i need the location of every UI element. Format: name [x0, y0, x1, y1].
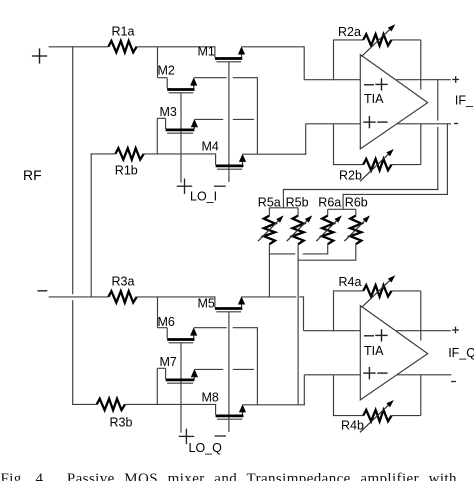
- wire R2b left vertical: [333, 124, 335, 165]
- transistor M8 source arrow: [242, 411, 244, 415]
- wire M2/M4 source join vertical: [256, 77, 258, 154]
- varistor R5a arrow: [258, 221, 278, 241]
- transistor M7 channel bar: [166, 379, 195, 382]
- varistor R4b arrow: [360, 405, 388, 432]
- wire LO_I- gate line (M1,M4 gates): [228, 62, 230, 182]
- wire M6 source rail (left of LO crossing): [194, 327, 227, 329]
- node LO_I+ terminal: [177, 185, 192, 187]
- wire M6 source rail (right of LO crossing): [233, 327, 258, 329]
- wire R2b bottom right: [392, 164, 421, 166]
- svg-text:R2b: R2b: [339, 168, 362, 182]
- svg-text:TIA: TIA: [364, 92, 384, 106]
- wire M8 source rail: [243, 404, 305, 406]
- wire IF_I+ tap down to R5 pair (below IF- crossing): [437, 127, 439, 190]
- resistor R6b: [350, 216, 361, 245]
- transistor M2 gate line: [169, 92, 194, 94]
- wire M7 source stub (dead-end segment): [233, 368, 254, 370]
- wire R4b bottom right: [392, 415, 421, 417]
- wire R4a right vertical (to + output): [420, 291, 422, 341]
- wire M2 drain staircase: [157, 47, 159, 78]
- wire R4b left vertical: [333, 375, 335, 416]
- wire M4 drain drop: [215, 154, 217, 165]
- svg-text:R2a: R2a: [338, 25, 361, 39]
- wire R4b bottom left: [333, 415, 363, 417]
- resistor R2b: [363, 159, 391, 170]
- transistor M1 source arrow: [241, 54, 243, 58]
- resistor R4b: [363, 410, 391, 421]
- svg-text:R3a: R3a: [112, 275, 135, 289]
- wire R5b bottom tap to Q mixer - rail: [297, 244, 299, 405]
- op-amp U2 inverting input mark: [364, 335, 374, 337]
- svg-text:LO_I: LO_I: [190, 190, 217, 204]
- transistor M8 gate line: [217, 418, 242, 420]
- svg-text:M2: M2: [158, 64, 175, 78]
- node IF_I- polarity mark: [454, 123, 458, 125]
- wire LO_Q+ gate line (M6,M7 gates): [180, 343, 182, 433]
- wire M6/M8 source join vertical: [256, 327, 258, 405]
- resistor R3a: [108, 291, 136, 302]
- transistor M1 gate line: [216, 61, 241, 63]
- transistor M5 gate line: [216, 311, 241, 313]
- wire mixer I+ to TIA top input: [304, 79, 360, 81]
- op-amp U1 non-inverting input mark: [375, 83, 387, 85]
- op-amp U2 non-inverting input mark: [375, 334, 387, 336]
- resistor R6a: [322, 216, 333, 245]
- wire IF_I- output: [397, 123, 451, 125]
- svg-text:M1: M1: [198, 45, 215, 59]
- svg-text:R5b: R5b: [286, 196, 309, 210]
- wire mixer Q+ to TIA top input: [304, 330, 361, 332]
- resistor R1a: [108, 41, 136, 52]
- wire RF- vertical to R1b: [90, 153, 92, 297]
- wire M6 drain staircase: [157, 297, 159, 328]
- wire R5b-R6b bottom join: [298, 259, 357, 261]
- wire R1b to M4 drain: [144, 153, 216, 155]
- wire R6 top riser: [342, 194, 344, 209]
- wire RF- rail to R3a: [49, 296, 109, 298]
- wire mixer I- to TIA riser: [305, 124, 307, 155]
- resistor R2a: [363, 34, 391, 45]
- wire R2b bottom left: [333, 164, 363, 166]
- wire R2b right vertical (to - output): [420, 124, 422, 165]
- wire R1b left: [91, 153, 116, 155]
- resistor R4a: [363, 285, 391, 296]
- wire R6b top stub: [355, 209, 357, 215]
- svg-text:M6: M6: [158, 315, 175, 329]
- node LO_I- terminal: [214, 185, 226, 187]
- resistor R1b: [115, 148, 143, 159]
- svg-text:R4a: R4a: [339, 275, 362, 289]
- wire M5 drain drop: [214, 297, 216, 308]
- wire mixer I- to TIA bottom input: [306, 123, 361, 125]
- wire M1 drain drop: [214, 47, 216, 58]
- node RF+ input terminal: [32, 55, 47, 57]
- node IF_Q- polarity mark: [451, 381, 456, 383]
- op-amp U1 lower - mark: [377, 121, 387, 123]
- wire LO_I+ gate line (M2,M3 gates): [180, 93, 182, 183]
- wire R6a top stub: [327, 209, 329, 215]
- transistor M4 source arrow: [242, 161, 244, 165]
- wire mixer Q- riser: [303, 375, 305, 406]
- op-amp U1 lower + mark: [363, 121, 375, 123]
- wire IF_Q+ output: [397, 330, 451, 332]
- op-amp U1 TIA I-channel: [360, 55, 427, 149]
- node LO_Q+ terminal: [179, 435, 194, 437]
- node IF_Q+ polarity mark: [452, 329, 459, 331]
- transistor M2 source arrow: [193, 85, 195, 89]
- svg-text:M5: M5: [198, 296, 215, 310]
- wire R5b top stub: [297, 208, 299, 216]
- transistor M1 channel bar: [215, 57, 242, 60]
- wire M5 source rail (right of R5b tap): [299, 296, 303, 298]
- op-amp U2 TIA Q-channel: [360, 306, 427, 400]
- wire IF_Q- output: [397, 374, 451, 376]
- wire mixer I+ drop to TIA: [303, 46, 305, 79]
- svg-text:R1a: R1a: [112, 25, 135, 39]
- resistor R3b: [97, 399, 125, 410]
- wire R5a-R6a bottom join (left of R5b tap): [269, 253, 295, 255]
- varistor R6a arrow: [316, 221, 336, 241]
- wire R6b bottom stub: [355, 244, 357, 260]
- resistor R5b: [293, 216, 304, 245]
- wire RF+ vertical to R3b (upper part): [72, 46, 74, 294]
- wire mixer Q+ drop to TIA: [303, 296, 305, 330]
- svg-text:RF: RF: [23, 167, 42, 183]
- figure caption: [1, 472, 474, 481]
- wire mixer Q- to TIA bottom input: [304, 374, 360, 376]
- wire R5 pair feed from IF_I+: [283, 189, 438, 191]
- transistor M7 source arrow: [193, 376, 195, 379]
- wire M5 source rail (left of R5b tap): [242, 296, 297, 298]
- wire R4b right vertical (to - output): [420, 375, 422, 416]
- wire M7 drain staircase: [156, 368, 158, 404]
- varistor R2a arrow: [362, 30, 390, 57]
- svg-text:M7: M7: [160, 355, 177, 369]
- transistor M6 gate line: [169, 342, 194, 344]
- wire M1 source rail to TIA: [242, 46, 305, 48]
- transistor M6 source arrow: [193, 335, 195, 339]
- wire M7 source stub (left of LO crossing): [194, 368, 223, 370]
- svg-text:R6a: R6a: [318, 196, 341, 210]
- varistor R5b arrow: [287, 221, 307, 241]
- wire R5a-R5b top join: [269, 207, 298, 209]
- wire R2a right vertical (to + output): [420, 40, 422, 90]
- wire M8 drain drop: [215, 404, 217, 414]
- svg-text:IF_I: IF_I: [455, 94, 474, 108]
- wire R4a top right: [392, 290, 421, 292]
- wire M4 source rail: [243, 153, 307, 155]
- wire R5a-R6a bottom join (right of R5b tap): [303, 253, 329, 255]
- op-amp U1 inverting input mark: [364, 84, 374, 86]
- node RF- input terminal: [38, 290, 48, 292]
- wire R3b to M8 drain: [125, 403, 216, 405]
- svg-text:M8: M8: [202, 391, 219, 405]
- svg-text:R1b: R1b: [115, 164, 138, 178]
- wire LO_Q- gate line (M5,M8 gates): [228, 312, 230, 432]
- wire R5a bottom tap to Q mixer + rail: [268, 244, 270, 297]
- svg-text:IF_Q: IF_Q: [448, 346, 474, 360]
- wire R5 top riser: [282, 189, 284, 208]
- transistor M3 channel bar: [166, 129, 195, 132]
- wire M3 source stub (left of LO crossing): [194, 118, 223, 120]
- transistor M2 channel bar: [167, 88, 194, 91]
- wire R5a top stub: [268, 208, 270, 216]
- wire R3b feed horizontal: [72, 403, 97, 405]
- svg-text:M4: M4: [202, 140, 219, 154]
- varistor R2b arrow: [360, 154, 388, 181]
- svg-text:R3b: R3b: [110, 416, 133, 430]
- wire M3 drain staircase: [156, 118, 158, 154]
- wire RF+ rail to R1a and M1: [49, 46, 109, 48]
- transistor M3 source arrow: [193, 126, 195, 129]
- wire M2 source rail (left of LO crossing): [194, 77, 227, 79]
- wire IF_I+ tap down to R5 pair (above IF- crossing): [437, 79, 439, 120]
- wire R4a top left: [333, 290, 363, 292]
- wire R2a top left: [333, 39, 363, 41]
- wire R6 pair feed from IF_I-: [343, 193, 448, 195]
- wire IF_I+ output: [397, 79, 451, 81]
- svg-text:R6b: R6b: [345, 196, 368, 210]
- wire M3 source stub (dead-end segment): [233, 118, 254, 120]
- svg-text:R5a: R5a: [258, 196, 281, 210]
- wire R3a to M5 drain: [137, 296, 216, 298]
- resistor R5a: [264, 216, 275, 245]
- wire IF_I- tap down to R6 pair: [446, 123, 448, 195]
- wire R6a-R6b top join: [328, 208, 356, 210]
- transistor M4 channel bar: [216, 165, 244, 168]
- node LO_Q- terminal: [215, 435, 226, 437]
- svg-text:R4b: R4b: [341, 418, 364, 432]
- op-amp U2 lower + mark: [363, 372, 375, 374]
- svg-text:LO_Q: LO_Q: [189, 441, 223, 455]
- transistor M5 channel bar: [215, 307, 242, 310]
- node IF_I+ polarity mark: [452, 79, 459, 81]
- wire R2a left vertical: [333, 40, 335, 80]
- transistor M4 gate line: [217, 168, 242, 170]
- wire R1a to M1 drain: [137, 46, 216, 48]
- wire M2 source rail (right of LO crossing): [233, 77, 258, 79]
- svg-text:TIA: TIA: [364, 344, 384, 358]
- varistor R4a arrow: [362, 281, 390, 308]
- op-amp U2 lower - mark: [377, 372, 387, 374]
- transistor M5 source arrow: [241, 304, 243, 308]
- wire R2a top right: [392, 39, 421, 41]
- transistor M6 channel bar: [167, 338, 194, 341]
- wire RF+ vertical to R3b (lower part): [72, 300, 74, 404]
- svg-text:M3: M3: [160, 105, 177, 119]
- varistor R6b arrow: [344, 221, 364, 241]
- wire R6a bottom stub: [327, 244, 329, 254]
- transistor M7 gate line: [167, 382, 193, 384]
- wire R4a left vertical: [333, 291, 335, 331]
- transistor M3 gate line: [167, 132, 193, 134]
- transistor M8 channel bar: [216, 415, 244, 418]
